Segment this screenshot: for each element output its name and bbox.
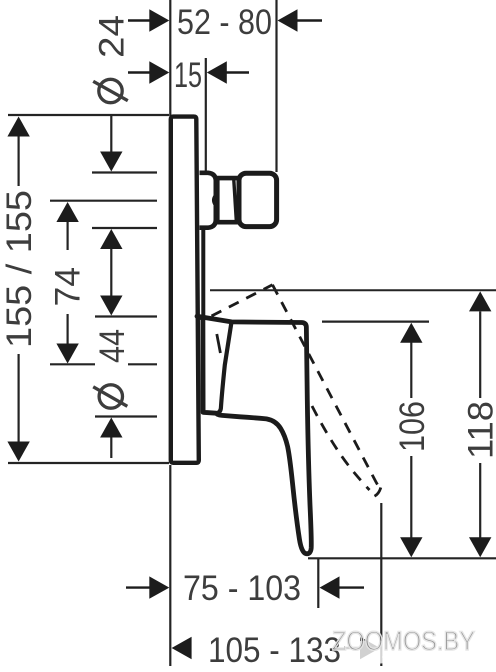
sleeve cylinder bbox=[217, 178, 240, 222]
extension line wall plane top bbox=[169, 0, 171, 116]
extension line 15 right bbox=[205, 58, 207, 171]
watermark smear blob 2 bbox=[382, 649, 466, 665]
extension line 118 top bbox=[210, 289, 496, 291]
dashed handle open position: hub dash bbox=[217, 334, 221, 353]
svg-text:155 / 155: 155 / 155 bbox=[0, 190, 39, 348]
dimension text O44 diameter symbol bbox=[93, 385, 127, 408]
dimension 75-103 left arrow bbox=[126, 576, 169, 598]
svg-text:ZOOMOS.BY: ZOOMOS.BY bbox=[332, 626, 475, 656]
dimension 52-80 left arrow bbox=[128, 9, 169, 31]
sleeve bulge bbox=[200, 173, 216, 228]
dashed handle open position: outer edge bbox=[273, 285, 381, 488]
dimension 155/155 up arrow bbox=[7, 117, 29, 137]
dimension O24 up arrow bbox=[100, 229, 122, 249]
svg-text:118: 118 bbox=[462, 401, 496, 459]
dimension O44 up arrow bbox=[100, 418, 122, 438]
dashed handle open position: tip bbox=[370, 488, 381, 498]
dimension O24 down arrow bbox=[100, 152, 122, 172]
extension line plate top bbox=[8, 114, 169, 116]
dimension text O24 diameter symbol bbox=[93, 79, 128, 102]
watermark smear blob bbox=[342, 640, 402, 664]
dimension 118 down arrow bbox=[469, 537, 491, 557]
extension line 75-103 right bbox=[317, 559, 319, 608]
svg-text:24: 24 bbox=[93, 15, 132, 58]
dimension 74 up arrow bbox=[56, 202, 78, 222]
wall plate bbox=[171, 117, 199, 463]
sleeve end cap bbox=[239, 173, 277, 226]
dimension 75-103 right arrow bbox=[320, 576, 365, 598]
O24 top tick bbox=[92, 171, 157, 173]
sleeve cylinder inner edge bbox=[234, 180, 237, 221]
dimension O44 down arrow bbox=[100, 296, 122, 316]
svg-text:74: 74 bbox=[49, 267, 88, 307]
dimension 106 up arrow bbox=[400, 323, 422, 343]
handle hub inner edge bbox=[216, 322, 231, 413]
handle lever outline bbox=[197, 316, 311, 553]
O24/O44 shared line bbox=[110, 249, 112, 296]
dimension 15 right arrow bbox=[207, 61, 249, 83]
dimension 105-133 left arrow bbox=[172, 637, 192, 659]
svg-text:106: 106 bbox=[393, 401, 432, 452]
extension line wall plane lower bbox=[169, 465, 171, 666]
extension line 105-133 right bbox=[380, 503, 382, 666]
dimension 74 top tick bbox=[50, 200, 157, 202]
dimension 105-133 right arrow bbox=[344, 637, 380, 659]
cartridge sleeve rear line bbox=[201, 227, 205, 318]
extension line bottom 106/118 bbox=[308, 557, 496, 559]
svg-text:52 - 80: 52 - 80 bbox=[177, 3, 272, 42]
svg-text:75 - 103: 75 - 103 bbox=[183, 569, 301, 608]
svg-text:105 - 133: 105 - 133 bbox=[208, 631, 341, 670]
dimension 74 bottom ticks bbox=[50, 363, 95, 365]
dimension 52-80 right arrow bbox=[278, 9, 323, 31]
dimension 15 left arrow bbox=[128, 61, 169, 83]
dashed handle open position: top edge bbox=[212, 285, 273, 316]
dimension O24 upper line bbox=[110, 116, 112, 153]
O24 bottom tick bbox=[92, 227, 157, 229]
extension line 106 top bbox=[322, 321, 429, 323]
dimension 118 up arrow bbox=[469, 291, 491, 311]
dimension 106 down arrow bbox=[400, 537, 422, 557]
O44 bottom tick bbox=[95, 415, 157, 417]
svg-text:44: 44 bbox=[93, 329, 132, 363]
svg-text:15: 15 bbox=[174, 56, 202, 95]
O44 top tick bbox=[95, 315, 157, 317]
extension line plate bottom bbox=[8, 462, 169, 464]
dashed handle open position: inner edge bbox=[312, 406, 370, 490]
dimension 155/155 down arrow bbox=[7, 442, 29, 462]
extension line sleeve end bbox=[275, 0, 277, 172]
dimension 74 down arrow bbox=[56, 344, 78, 364]
